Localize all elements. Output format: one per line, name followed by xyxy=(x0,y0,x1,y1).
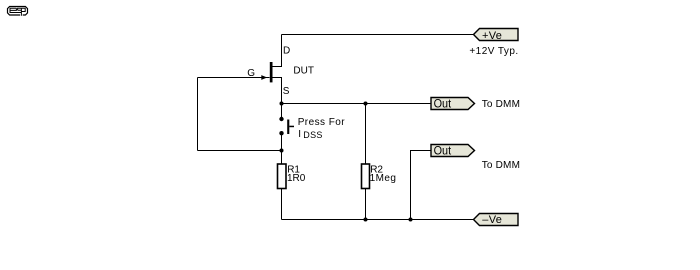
svg-text:Out: Out xyxy=(434,97,452,111)
wire: R1 bottom lead xyxy=(281,189,283,220)
junction: gate loop node xyxy=(280,149,284,153)
wire: gate wire xyxy=(198,77,270,79)
pushbutton SW1 Press For IDSS xyxy=(279,117,294,136)
port flag Out (to DMM upper) xyxy=(431,98,475,110)
svg-text:+Ve: +Ve xyxy=(482,30,502,42)
svg-text:S: S xyxy=(283,86,290,97)
svg-text:+12V Typ.: +12V Typ. xyxy=(469,46,518,57)
junction: Out2 bottom node xyxy=(409,218,413,222)
wire: gate loop bottom xyxy=(198,150,282,152)
wire: drain lead xyxy=(273,35,282,67)
transistor Q1 DUT (N-JFET) xyxy=(261,62,272,82)
svg-text:1Meg: 1Meg xyxy=(370,173,397,184)
svg-text:Press For: Press For xyxy=(298,117,346,128)
svg-text:Out: Out xyxy=(434,144,452,158)
ESP logo xyxy=(8,7,28,17)
power flag -Ve xyxy=(474,214,519,226)
svg-text:To DMM: To DMM xyxy=(482,160,520,171)
svg-text:G: G xyxy=(247,68,255,79)
svg-text:1R0: 1R0 xyxy=(287,173,306,184)
wire: source lead xyxy=(273,78,282,120)
port flag Out (to DMM lower) xyxy=(431,145,475,157)
wire: gate loop vertical xyxy=(197,78,199,151)
wire: source node to Out xyxy=(282,103,432,105)
wire: button to R1 xyxy=(281,133,283,164)
power flag +Ve xyxy=(474,29,519,41)
svg-text:–Ve: –Ve xyxy=(482,214,502,226)
resistor R2 xyxy=(362,164,370,189)
wire: bottom rail to -Ve xyxy=(282,219,475,221)
wire: +Ve top rail xyxy=(282,34,475,36)
wire: R2 bottom lead xyxy=(365,189,367,220)
wire: R2 top lead xyxy=(365,104,367,165)
wire: Out2 branch xyxy=(411,151,432,220)
svg-text:To DMM: To DMM xyxy=(482,99,520,110)
junction: R2 top node xyxy=(364,102,368,106)
svg-text:DUT: DUT xyxy=(293,65,314,76)
svg-text:D: D xyxy=(283,45,290,56)
junction: R2 bottom node xyxy=(364,218,368,222)
junction: source node xyxy=(280,102,284,106)
resistor R1 xyxy=(278,164,287,189)
svg-text:I: I xyxy=(298,129,301,140)
svg-text:DSS: DSS xyxy=(303,130,322,140)
